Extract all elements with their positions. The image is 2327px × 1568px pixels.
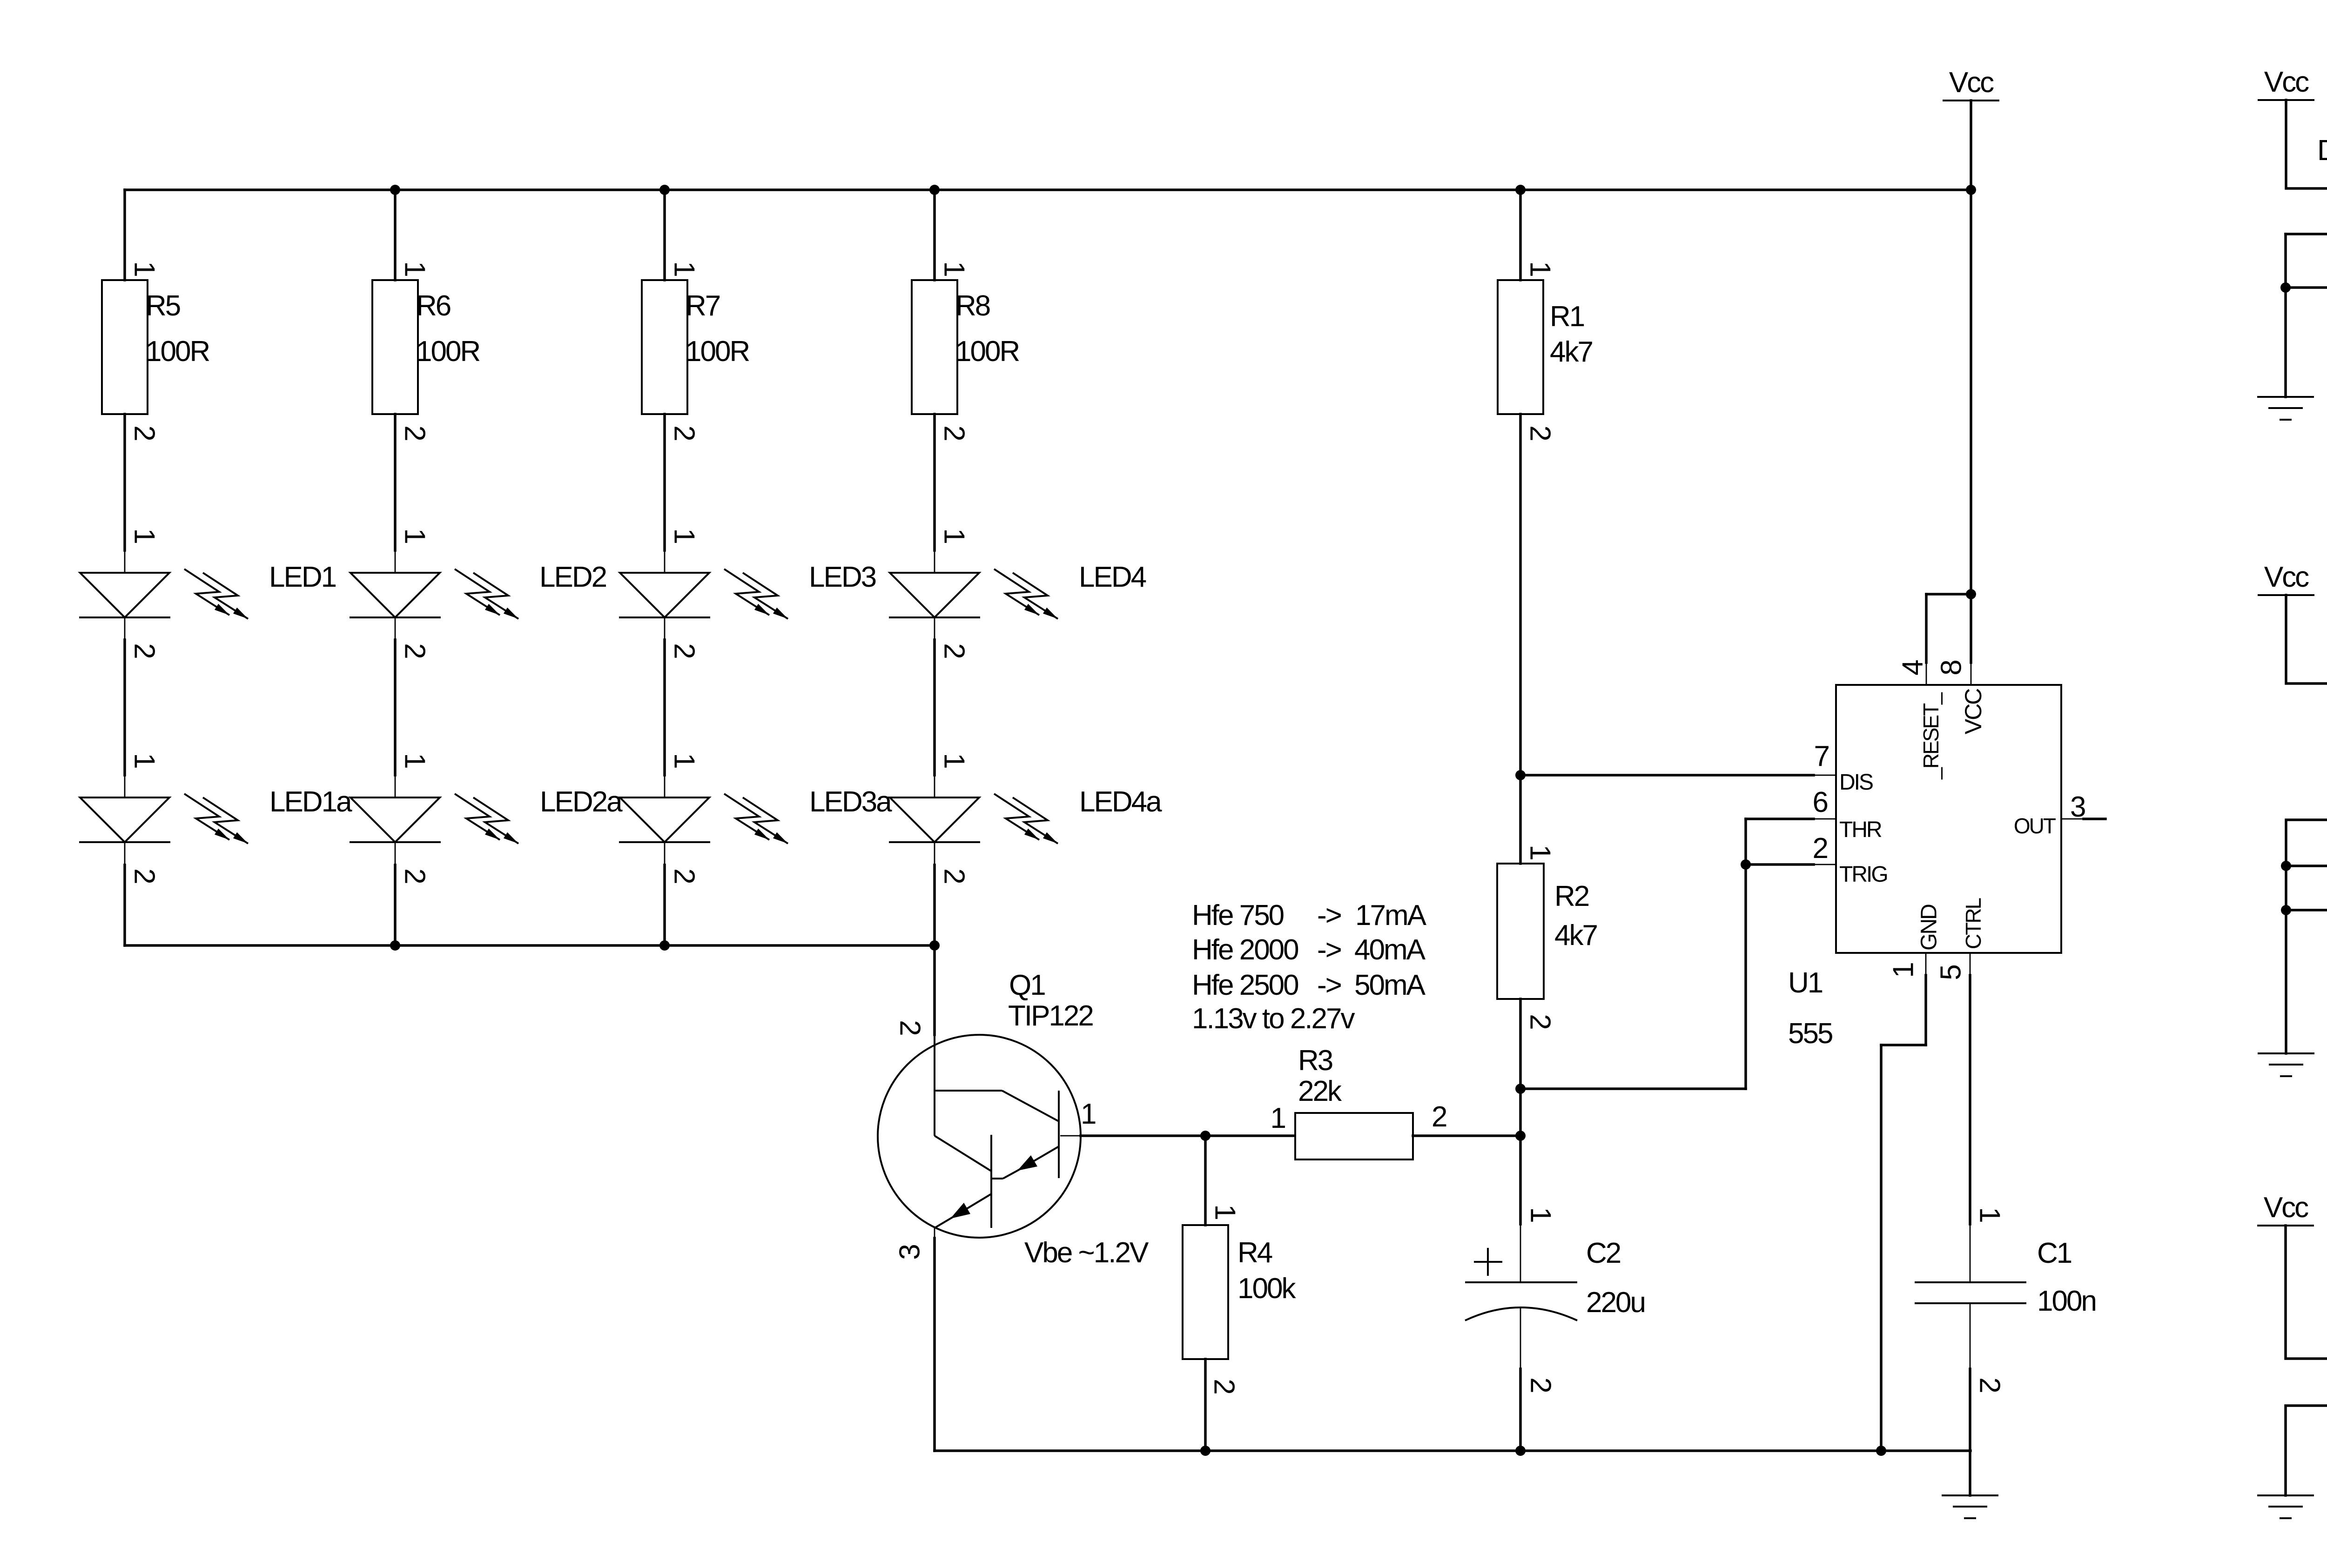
resistor R7 100R (642, 261, 749, 440)
svg-text:7: 7 (1814, 740, 1829, 772)
wire rail to R7 pin1 (663, 190, 666, 280)
wire R2 pin2 down (1519, 999, 1522, 1089)
resistor R8 100R (912, 261, 1019, 440)
svg-text:22k: 22k (1298, 1075, 1342, 1107)
svg-text:R4: R4 (1237, 1237, 1272, 1269)
svg-text:LED4: LED4 (1079, 561, 1146, 593)
svg-text:6: 6 (1813, 786, 1828, 818)
svg-text:4: 4 (1897, 660, 1929, 676)
node C2/rail junction (1515, 1446, 1526, 1456)
cathode bar LED3 (619, 616, 710, 618)
wire LED cathode to lower LED anode (col 1) (124, 617, 126, 640)
svg-text:1: 1 (668, 753, 700, 768)
svg-text:5: 5 (1935, 965, 1967, 980)
ground at USB (2258, 1053, 2314, 1076)
svg-text:1: 1 (1524, 261, 1556, 276)
power Vcc (top rail) (1943, 67, 1999, 101)
svg-text:555: 555 (1788, 1018, 1832, 1050)
diode triangle LED3 (620, 573, 709, 617)
LED LED1 (79, 569, 248, 619)
node top rail junction x=4235 (1966, 185, 1976, 195)
power Vcc (USB) (2258, 561, 2314, 595)
svg-text:Vcc: Vcc (2264, 66, 2309, 98)
node R2/THR junction (1515, 1084, 1526, 1094)
svg-text:2: 2 (399, 643, 431, 658)
node RESET/VCC junction (1966, 589, 1976, 599)
wire DIS to 555 (1520, 774, 1814, 777)
svg-text:LED1a: LED1a (269, 786, 352, 818)
svg-text:2: 2 (894, 1020, 926, 1035)
node LED rail junction x=1428 (659, 940, 670, 951)
wire OUT pin3 (2061, 818, 2084, 820)
svg-text:100R: 100R (686, 335, 749, 368)
wire VCC pin8 up to rail (1971, 663, 1972, 685)
wire Q1 collector from LED rail (933, 945, 936, 1035)
wire R1 column (1519, 190, 1522, 280)
svg-text:GND: GND (1917, 905, 1942, 951)
svg-text:1: 1 (399, 753, 431, 768)
cathode bar LED2 (350, 616, 441, 618)
node top rail junction x=849 (390, 185, 400, 195)
node R4/rail junction (1200, 1446, 1211, 1456)
svg-text:LED1: LED1 (269, 561, 336, 593)
diode triangle LED4a (890, 797, 979, 842)
wire USB to ground (2285, 910, 2287, 1053)
wire LED cathode to lower LED anode (col 2) (395, 617, 396, 640)
svg-text:R7: R7 (686, 290, 720, 322)
wire R4 pin2 to rail (1204, 1359, 1207, 1451)
svg-text:DC_JACK: DC_JACK (2317, 134, 2327, 167)
svg-text:1: 1 (1524, 844, 1556, 859)
svg-text:2: 2 (938, 425, 970, 440)
node LED rail junction x=2008 (929, 940, 940, 951)
svg-text:Vcc: Vcc (1949, 67, 1994, 99)
resistor R5 100R (102, 261, 209, 440)
node top rail junction x=1428 (659, 185, 670, 195)
diode triangle LED1 (80, 573, 169, 617)
LED LED3a (619, 794, 788, 844)
diode triangle LED1a (80, 797, 169, 842)
LED LED3 (619, 569, 788, 619)
node R3/C2 junction (1515, 1131, 1526, 1141)
node base junction (1200, 1131, 1211, 1141)
svg-text:2: 2 (938, 643, 970, 658)
svg-text:8: 8 (1936, 661, 1968, 676)
connector DC_JACK (2317, 134, 2327, 323)
svg-text:2: 2 (1974, 1377, 2006, 1392)
svg-text:->: -> (1317, 934, 1341, 966)
svg-text:3: 3 (894, 1245, 926, 1260)
diode triangle LED3a (620, 797, 709, 842)
wire USB pin5 (2286, 864, 2327, 867)
wire rail to R5 pin1 (123, 190, 126, 280)
op-amp/timer U1 555 (1788, 660, 2085, 1050)
cathode bar LED3a (619, 841, 710, 843)
svg-text:2: 2 (1208, 1379, 1240, 1394)
power Vcc (DC_JACK) (2258, 66, 2314, 100)
wire USB pin4 (2286, 820, 2327, 910)
diode triangle LED4 (890, 573, 979, 617)
svg-text:100R: 100R (955, 335, 1019, 368)
wire Q1 base to junction (1081, 1134, 1205, 1137)
svg-text:TIP122: TIP122 (1008, 1000, 1093, 1032)
node LED rail junction x=849 (390, 940, 400, 951)
resistor R6 100R (372, 261, 479, 440)
svg-text:2: 2 (399, 868, 431, 883)
wire Vcc top rail (125, 188, 1971, 191)
node top rail junction x=3267 (1515, 185, 1526, 195)
svg-text:100n: 100n (2037, 1285, 2096, 1317)
cathode bar LED1a (79, 841, 170, 843)
LED LED2 (350, 569, 518, 619)
wire R8 pin2 to LED anode (933, 414, 936, 550)
wire C1 pin2 to rail and ground (1969, 1369, 1971, 1495)
svg-text:2: 2 (668, 425, 700, 440)
wire Vcc to USB pin1 (2286, 595, 2327, 683)
svg-text:1: 1 (1271, 1102, 1285, 1134)
wire DIS node down to R2 (1519, 775, 1522, 864)
wire TRIG to 555 (1746, 863, 1814, 866)
svg-text:Vcc: Vcc (2264, 1192, 2308, 1224)
svg-text:1: 1 (1974, 1207, 2006, 1222)
svg-text:4k7: 4k7 (1554, 919, 1597, 952)
svg-text:LED2: LED2 (539, 561, 606, 593)
svg-text:17mA: 17mA (1355, 899, 1427, 931)
node DC_JACK gnd junction (2280, 282, 2291, 293)
wire R7 pin2 to LED anode (663, 414, 666, 550)
wire rail to R8 pin1 (933, 190, 936, 280)
svg-text:CTRL: CTRL (1961, 898, 1985, 950)
svg-text:Hfe 2000: Hfe 2000 (1192, 934, 1298, 966)
wire R1 pin2 down to DIS node (1519, 414, 1522, 775)
wire GND pin1 (1925, 953, 1927, 975)
wire Vcc to DC_IN pin1 (2286, 1226, 2327, 1359)
LED LED4a (889, 794, 1058, 844)
node GND/rail junction (1876, 1446, 1886, 1456)
svg-text:->: -> (1317, 899, 1341, 931)
svg-text:->: -> (1317, 969, 1341, 1001)
svg-text:1: 1 (938, 528, 970, 543)
svg-text:2: 2 (399, 425, 431, 440)
wire THR to 555 (1746, 818, 1814, 820)
node TRIG junction (1741, 859, 1751, 870)
LED LED2a (350, 794, 518, 844)
svg-text:1: 1 (399, 261, 431, 276)
svg-text:LED2a: LED2a (540, 786, 623, 818)
svg-text:1: 1 (128, 753, 161, 768)
svg-text:Hfe 2500: Hfe 2500 (1192, 969, 1298, 1001)
svg-text:THR: THR (1839, 818, 1882, 842)
svg-text:TRIG: TRIG (1839, 862, 1887, 887)
svg-text:R5: R5 (146, 290, 180, 322)
svg-text:220u: 220u (1586, 1287, 1645, 1319)
svg-text:1.13v to 2.27v: 1.13v to 2.27v (1192, 1003, 1355, 1035)
svg-text:C1: C1 (2037, 1237, 2071, 1269)
LED LED1a (79, 794, 248, 844)
node USB pin6 junction (2281, 905, 2291, 915)
wire THR loop vertical (1744, 819, 1747, 1089)
svg-text:1: 1 (1081, 1098, 1096, 1130)
wire R4 pin1 (1204, 1136, 1207, 1225)
svg-text:1: 1 (1888, 963, 1920, 978)
wire USB pin6 (2286, 909, 2327, 911)
svg-text:1: 1 (668, 261, 700, 276)
wire Vcc to rail (1970, 101, 1972, 190)
svg-text:1: 1 (399, 528, 431, 543)
svg-text:100k: 100k (1237, 1273, 1296, 1305)
svg-text:R6: R6 (416, 290, 451, 322)
ground at C1 (1942, 1495, 1998, 1518)
node DIS junction (1515, 770, 1526, 780)
cathode bar LED2a (350, 841, 441, 843)
wire base junction to R3 (1205, 1134, 1295, 1137)
svg-text:R3: R3 (1298, 1045, 1332, 1077)
svg-text:U1: U1 (1788, 967, 1823, 999)
svg-text:Hfe 750: Hfe 750 (1192, 899, 1284, 931)
diode triangle LED2 (350, 573, 440, 617)
wire R3 pin2 to C2 column (1413, 1134, 1520, 1137)
svg-text:LED4a: LED4a (1079, 786, 1162, 818)
svg-text:2: 2 (938, 868, 970, 883)
wire lower LED cathode to collector rail (col 3) (664, 843, 666, 865)
svg-text:Q1: Q1 (1009, 969, 1045, 1001)
svg-text:2: 2 (1524, 1014, 1556, 1029)
svg-text:OUT: OUT (2014, 814, 2056, 838)
resistor R3 22k (1271, 1045, 1446, 1159)
wire THR loop horizontal (1520, 1087, 1746, 1090)
svg-text:R8: R8 (955, 290, 990, 322)
ground at DC_IN (2257, 1495, 2314, 1518)
svg-text:1: 1 (938, 753, 970, 768)
diode triangle LED2a (350, 797, 440, 842)
svg-text:4k7: 4k7 (1550, 336, 1592, 368)
wire ground bottom rail (935, 1449, 1971, 1452)
svg-text:2: 2 (1524, 425, 1556, 440)
svg-text:VCC: VCC (1960, 689, 1986, 734)
wire CTRL pin5 down (1970, 953, 1971, 975)
wire DC_JACK to ground (2284, 288, 2287, 397)
svg-text:50mA: 50mA (1354, 969, 1426, 1001)
svg-text:1: 1 (128, 261, 161, 276)
svg-text:2: 2 (668, 868, 700, 883)
resistor R1 4k7 (1498, 261, 1592, 440)
LED LED4 (889, 569, 1058, 619)
wire bottom LED rail (Q1 collector net) (125, 944, 935, 947)
wire lower LED cathode to collector rail (col 1) (124, 843, 126, 865)
svg-text:1: 1 (1209, 1204, 1241, 1219)
capacitor C2 220u (1465, 1136, 1645, 1451)
svg-text:2: 2 (128, 643, 161, 658)
svg-text:C2: C2 (1586, 1237, 1621, 1269)
resistor R2 4k7 (1497, 844, 1597, 1029)
wire RESET pin4 (1926, 663, 1927, 685)
transistor Q1 TIP122 (878, 969, 1096, 1260)
wire LED cathode to lower LED anode (col 4) (934, 617, 935, 640)
wire LED cathode to lower LED anode (col 3) (664, 617, 666, 640)
wire R5 pin2 to LED anode (123, 414, 126, 550)
power Vcc (DC_IN) (2257, 1192, 2314, 1226)
wire lower LED cathode to collector rail (col 4) (934, 843, 935, 865)
svg-text:1: 1 (938, 261, 970, 276)
svg-text:R2: R2 (1554, 880, 1589, 912)
svg-text:R1: R1 (1550, 301, 1584, 333)
svg-text:Vbe ~1.2V: Vbe ~1.2V (1024, 1237, 1149, 1269)
svg-text:2: 2 (128, 425, 161, 440)
svg-text:100R: 100R (416, 335, 479, 368)
wire R2 node down to R3 node (1519, 1089, 1522, 1136)
node USB pin5 junction (2281, 861, 2291, 871)
wire Q1 emitter down (933, 1238, 936, 1451)
wire lower LED cathode to collector rail (col 2) (395, 843, 396, 865)
svg-text:DIS: DIS (1839, 770, 1873, 795)
svg-text:1: 1 (128, 528, 161, 543)
svg-text:LED3a: LED3a (809, 786, 892, 818)
wire Vcc to DC_JACK pin1 (2286, 100, 2327, 188)
wire R6 pin2 to LED anode (394, 414, 397, 550)
ground at DC_JACK (2257, 397, 2314, 420)
cathode bar LED1 (79, 616, 170, 618)
svg-text:100R: 100R (146, 335, 209, 368)
svg-text:1: 1 (1525, 1207, 1557, 1222)
svg-text:2: 2 (668, 643, 700, 658)
svg-text:Vcc: Vcc (2264, 561, 2309, 593)
svg-text:LED3: LED3 (809, 561, 876, 593)
wire rail to R6 pin1 (394, 190, 397, 280)
node top rail junction x=2008 (929, 185, 940, 195)
svg-text:_RESET_: _RESET_ (1919, 692, 1943, 780)
note Hfe table (1192, 899, 1427, 1035)
cathode bar LED4 (889, 616, 980, 618)
resistor R4 100k (1183, 1204, 1296, 1394)
capacitor C1 100n (1915, 1207, 2096, 1392)
svg-text:2: 2 (1813, 832, 1828, 864)
svg-text:2: 2 (1525, 1377, 1557, 1392)
svg-text:1: 1 (668, 528, 700, 543)
svg-text:2: 2 (1432, 1101, 1446, 1133)
svg-text:40mA: 40mA (1354, 934, 1426, 966)
svg-text:2: 2 (128, 868, 161, 883)
cathode bar LED4a (889, 841, 980, 843)
